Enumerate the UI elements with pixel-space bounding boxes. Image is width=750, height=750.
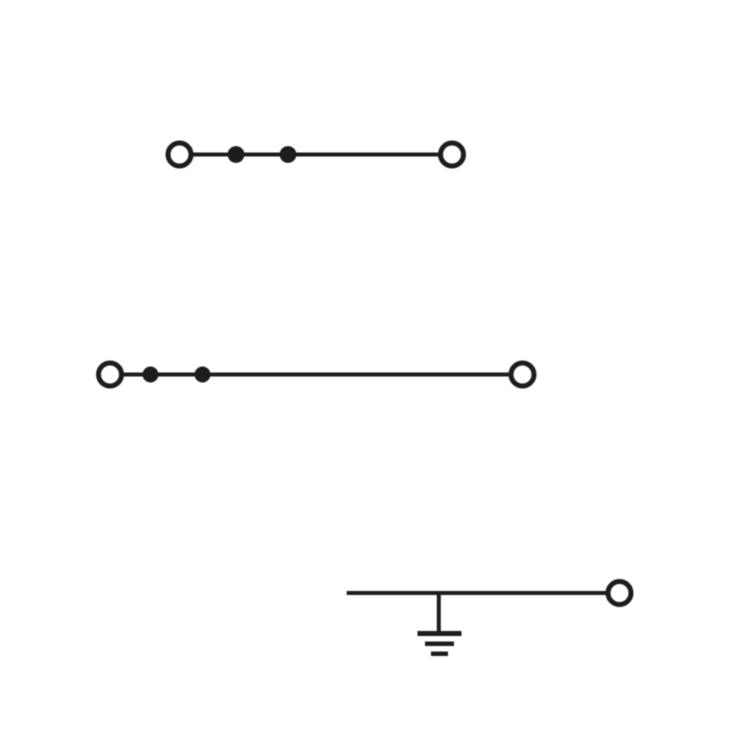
ground bar 3 [431,652,448,657]
junction dot level 2 a [143,367,159,383]
terminal circle ground level right [608,582,631,605]
wire level 2 [110,373,523,377]
ground bar 1 [418,631,462,636]
wire ground level [347,591,620,595]
terminal circle level 2 left [99,363,122,386]
ground bar 2 [425,642,454,647]
terminal circle level 2 right [511,363,534,386]
wire level 1 [180,153,453,157]
terminal circle level 1 left [168,143,191,166]
terminal circle level 1 right [441,143,464,166]
junction dot level 1 a [228,146,245,163]
junction dot level 1 b [280,146,297,163]
junction dot level 2 b [195,367,211,383]
wire ground drop [437,593,441,634]
